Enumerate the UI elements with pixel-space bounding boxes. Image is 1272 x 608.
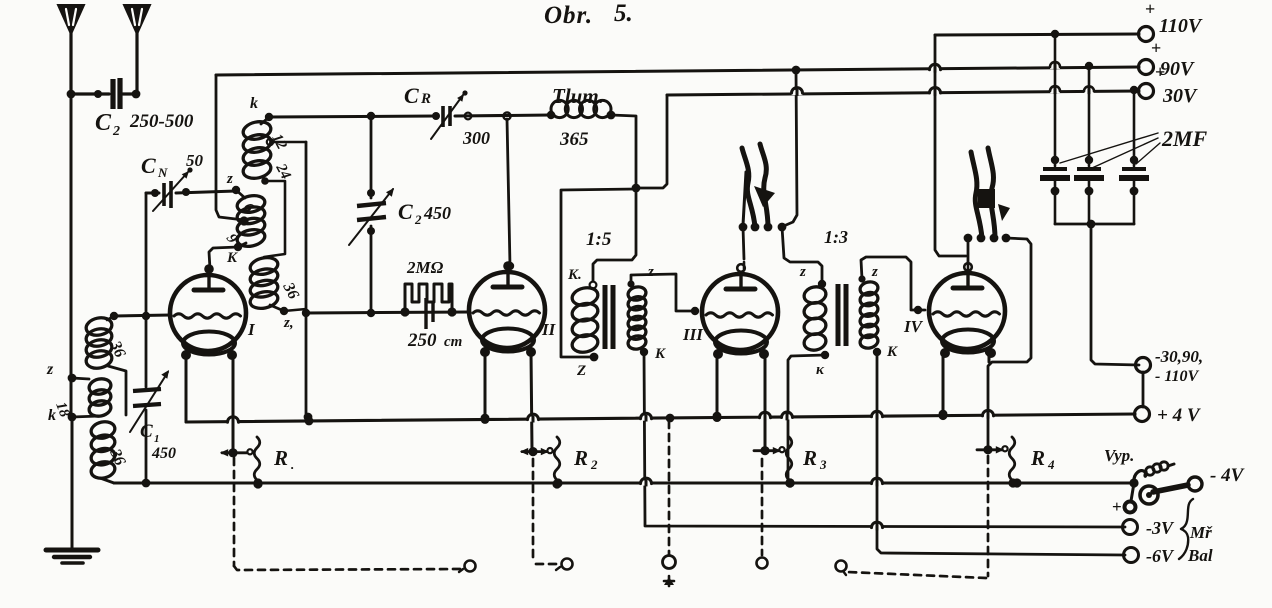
svg-text:1:5: 1:5 xyxy=(586,229,612,250)
svg-text:K.: K. xyxy=(567,267,582,283)
svg-text:1:3: 1:3 xyxy=(824,227,848,247)
svg-text:z: z xyxy=(46,361,54,378)
svg-text:κ: κ xyxy=(816,362,825,378)
svg-text:- 110V: - 110V xyxy=(1155,368,1199,385)
svg-text:450: 450 xyxy=(423,203,451,223)
svg-text:z: z xyxy=(799,264,806,280)
svg-text:R: R xyxy=(273,446,288,470)
svg-text:Z: Z xyxy=(576,363,586,379)
svg-text:Mř: Mř xyxy=(1189,523,1213,542)
svg-text:250: 250 xyxy=(407,330,437,351)
svg-text:R: R xyxy=(1030,446,1045,470)
svg-text:+: + xyxy=(1145,0,1155,19)
svg-text:z: z xyxy=(226,171,233,187)
svg-text:50: 50 xyxy=(186,151,204,170)
svg-text:R: R xyxy=(573,446,588,470)
svg-text:III: III xyxy=(682,325,704,344)
svg-text:-3V: -3V xyxy=(1146,518,1175,538)
svg-text:2: 2 xyxy=(414,212,422,227)
svg-text:110V: 110V xyxy=(1159,15,1203,37)
svg-text:2: 2 xyxy=(590,457,598,472)
svg-text:- 4V: - 4V xyxy=(1210,465,1245,486)
svg-text:k: k xyxy=(48,407,56,424)
svg-text:C: C xyxy=(141,153,156,178)
svg-text:K: K xyxy=(654,346,666,362)
svg-text:+: + xyxy=(1155,62,1165,82)
svg-text:z: z xyxy=(647,264,654,280)
svg-text:Obr.: Obr. xyxy=(544,2,593,29)
svg-text:K: K xyxy=(226,250,238,266)
svg-text:250-500: 250-500 xyxy=(129,111,194,132)
svg-text:+: + xyxy=(1112,497,1122,516)
svg-text:450: 450 xyxy=(151,445,176,462)
svg-text:4: 4 xyxy=(1047,457,1055,472)
svg-text:cm: cm xyxy=(444,334,462,350)
svg-text:R: R xyxy=(420,91,431,107)
svg-text:5.: 5. xyxy=(614,0,633,27)
svg-text:-6V: -6V xyxy=(1146,546,1175,566)
svg-text:+ 4 V: + 4 V xyxy=(1157,405,1201,426)
svg-text:IV: IV xyxy=(903,317,924,336)
svg-text:30V: 30V xyxy=(1162,85,1198,107)
svg-text:-30,90,: -30,90, xyxy=(1155,347,1203,366)
svg-text:.: . xyxy=(291,457,294,472)
svg-text:z,: z, xyxy=(283,315,294,331)
svg-text:k: k xyxy=(250,95,258,112)
svg-text:1: 1 xyxy=(154,433,160,445)
svg-text:C: C xyxy=(404,83,419,108)
svg-text:3: 3 xyxy=(819,457,827,472)
svg-text:2: 2 xyxy=(112,124,120,139)
svg-text:2MF: 2MF xyxy=(1161,126,1208,151)
svg-text:C: C xyxy=(398,199,413,224)
svg-text:Vyp.: Vyp. xyxy=(1104,446,1134,465)
svg-text:Bal: Bal xyxy=(1187,546,1213,565)
svg-text:N: N xyxy=(157,165,168,180)
svg-text:R: R xyxy=(802,446,817,470)
svg-text:365: 365 xyxy=(559,129,589,150)
svg-text:z: z xyxy=(871,264,878,280)
svg-text:300: 300 xyxy=(462,128,490,148)
svg-text:+: + xyxy=(1151,38,1161,58)
svg-text:C: C xyxy=(140,421,153,442)
svg-text:K: K xyxy=(886,344,898,360)
svg-text:II: II xyxy=(541,320,557,339)
svg-text:C: C xyxy=(95,110,112,136)
svg-text:2MΩ: 2MΩ xyxy=(406,258,444,277)
